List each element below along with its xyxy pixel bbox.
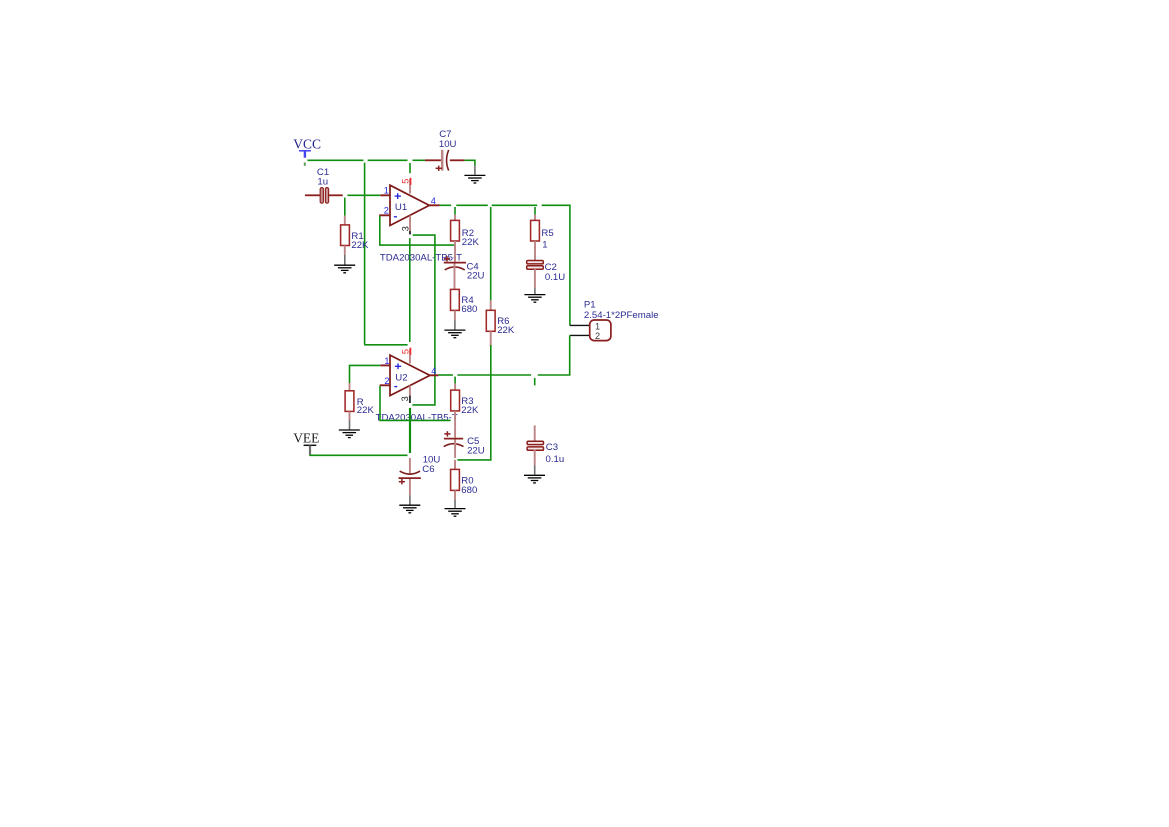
wire R2 stub bbox=[454, 207, 456, 215]
svg-text:5: 5 bbox=[401, 179, 411, 184]
wire U1 output rail segment 2 bbox=[456, 204, 488, 206]
wire C3 stub bbox=[534, 378, 536, 386]
wire U1 pin5 stub bbox=[409, 163, 411, 173]
ground under R0 bbox=[445, 509, 466, 517]
wire VCC rail stub tick bbox=[304, 162, 306, 166]
svg-text:2: 2 bbox=[384, 376, 389, 386]
svg-text:1: 1 bbox=[542, 239, 547, 250]
wire VCC rail segment 2 bbox=[368, 159, 408, 161]
wire R6 column upper bbox=[490, 207, 492, 300]
VEE power flag symbol bbox=[304, 445, 317, 454]
ground symbol under C7 bbox=[464, 175, 485, 183]
wire R3 stub bbox=[454, 377, 456, 384]
wire U1 feedback pin2 to R2 bottom bbox=[380, 216, 455, 245]
wire U2 pin3 column down to VEE junction bbox=[409, 408, 411, 453]
svg-text:5: 5 bbox=[400, 349, 410, 354]
resistor R3 bbox=[451, 383, 460, 437]
ground pin gray stem under C7 bbox=[474, 165, 476, 175]
op-amp U1 bbox=[379, 178, 439, 235]
ground under C6 bbox=[399, 505, 420, 513]
svg-text:4: 4 bbox=[431, 366, 436, 376]
resistor R0 bbox=[451, 460, 460, 508]
svg-text:1u: 1u bbox=[317, 176, 328, 187]
wire R5 stub bbox=[534, 207, 536, 215]
capacitor C4 bbox=[444, 256, 466, 289]
svg-text:22U: 22U bbox=[467, 271, 485, 282]
ground under C2 bbox=[524, 295, 545, 303]
wire R6 column lower bbox=[457, 345, 490, 460]
svg-text:22K: 22K bbox=[351, 240, 369, 251]
svg-text:22U: 22U bbox=[467, 446, 485, 457]
resistor R1 bbox=[341, 216, 350, 265]
svg-text:22K: 22K bbox=[462, 237, 480, 248]
wire U2 input net to R bbox=[350, 365, 381, 383]
svg-text:3: 3 bbox=[400, 226, 410, 231]
wire VCC rail segment 3 bbox=[413, 159, 426, 161]
wire U2 output net segment 2 bbox=[457, 374, 531, 376]
wire U2 feedback pin2 to R3 bottom bbox=[380, 386, 451, 421]
ground under R1 bbox=[334, 265, 355, 273]
svg-text:10U: 10U bbox=[439, 139, 457, 150]
svg-text:22K: 22K bbox=[357, 405, 375, 416]
capacitor C6 (polarized, + down) bbox=[399, 458, 421, 505]
resistor R bbox=[345, 383, 354, 429]
wire U1 output rail segment 4 to P1 corner bbox=[542, 205, 570, 325]
wire U1 output rail segment 1 bbox=[440, 204, 452, 206]
svg-text:1: 1 bbox=[384, 185, 389, 195]
resistor R4 bbox=[451, 289, 460, 329]
ground under R bbox=[339, 430, 360, 438]
svg-text:680: 680 bbox=[461, 485, 477, 496]
wire U1 pin3 jog to U2 pin3 jog bbox=[412, 235, 435, 405]
svg-text:U1: U1 bbox=[395, 202, 407, 213]
svg-text:4: 4 bbox=[431, 196, 436, 206]
svg-text:2: 2 bbox=[384, 205, 389, 215]
resistor R2 bbox=[451, 215, 460, 262]
resistor R6 bbox=[486, 300, 495, 346]
svg-text:VCC: VCC bbox=[293, 136, 321, 151]
capacitor C1 (non-polarized, horizontal) bbox=[305, 188, 343, 204]
capacitor C3 (non-polarized, vertical) bbox=[527, 425, 543, 474]
svg-text:3: 3 bbox=[400, 396, 410, 401]
wire R1 stub bbox=[344, 198, 346, 216]
ground under R4 bbox=[444, 330, 465, 338]
connector P1 bbox=[570, 320, 611, 341]
ground under C3 bbox=[524, 475, 545, 483]
svg-text:1: 1 bbox=[595, 322, 600, 332]
svg-text:C6: C6 bbox=[422, 464, 434, 475]
svg-text:TDA2030AL-TB5-T: TDA2030AL-TB5-T bbox=[376, 413, 458, 424]
wire VCC rail segment 1 bbox=[307, 159, 363, 161]
wire input net C1 to U1 pin1 bbox=[347, 194, 380, 196]
VCC power flag symbol bbox=[299, 151, 311, 158]
wire U2 output net segment 1 bbox=[438, 374, 453, 376]
wire U1 pin3 column bbox=[409, 238, 411, 342]
svg-text:680: 680 bbox=[461, 304, 477, 315]
svg-text:0.1u: 0.1u bbox=[546, 454, 565, 465]
op-amp U2 bbox=[380, 348, 439, 403]
svg-text:2: 2 bbox=[595, 331, 600, 341]
resistor R5 bbox=[531, 215, 540, 261]
svg-text:VEE: VEE bbox=[293, 430, 319, 445]
wire U1 output rail segment 3 bbox=[492, 204, 538, 206]
svg-text:C3: C3 bbox=[546, 442, 558, 453]
wire VCC column down to U2 pin5 feed bbox=[365, 163, 408, 345]
svg-text:U2: U2 bbox=[395, 372, 407, 383]
svg-text:R5: R5 bbox=[541, 228, 553, 239]
wire VEE rail bbox=[309, 454, 407, 456]
capacitor C7 (polarized, horizontal) bbox=[425, 150, 464, 171]
wire C7 right to ground corner bbox=[464, 160, 475, 165]
capacitor C5 (polarized) bbox=[444, 431, 464, 458]
svg-text:22K: 22K bbox=[497, 325, 515, 336]
svg-text:1: 1 bbox=[384, 356, 389, 366]
svg-text:22K: 22K bbox=[461, 405, 479, 416]
wire P1 pin2 down to U2 output net bbox=[538, 335, 570, 375]
svg-text:0.1U: 0.1U bbox=[545, 272, 565, 283]
capacitor C2 (non-polarized, vertical) bbox=[527, 261, 544, 295]
